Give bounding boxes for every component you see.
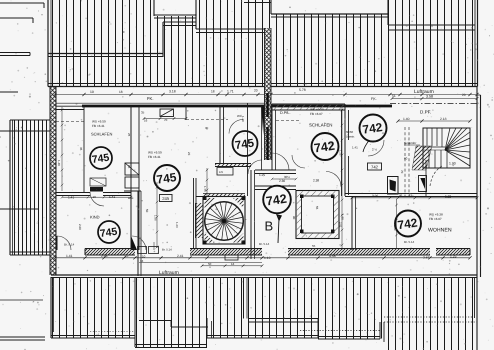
svg-text:5.23: 5.23 [445,194,451,198]
mid dim vertical [203,168,208,196]
step box below stair strip [225,255,238,260]
balcony door lower left [57,236,75,250]
bath door arc [326,172,341,187]
svg-text:B: B [265,219,274,234]
right exterior wall [477,86,481,277]
svg-text:1.56: 1.56 [154,215,158,221]
svg-text:745: 745 [99,226,118,240]
svg-text:WOHNEN: WOHNEN [428,227,452,233]
kind room [78,214,100,230]
circle 745 no3 [154,165,180,191]
bath shaft box [292,191,345,249]
svg-text:D.PF.: D.PF. [420,110,431,115]
upper door arc near bath [292,155,305,168]
circle 742 no1 [312,133,339,160]
svg-text:3.18: 3.18 [169,90,176,94]
svg-text:FB +8.07: FB +8.07 [310,112,323,116]
wall between schlafen and kind [56,187,132,206]
svg-text:60: 60 [404,156,408,160]
svg-text:Luftraum: Luftraum [414,89,434,95]
small dims corridor [145,209,179,252]
svg-text:18: 18 [211,90,215,94]
svg-text:745: 745 [156,170,178,187]
svg-text:2.62: 2.62 [393,225,397,231]
stair hatch wedge [412,146,432,170]
svg-text:Dunstr.: Dunstr. [346,135,355,139]
svg-text:2.36: 2.36 [101,254,108,258]
svg-text:1.75: 1.75 [203,186,207,192]
schlafen 742 room [272,104,345,196]
svg-text:55: 55 [312,244,316,248]
dim line y197 [351,194,479,200]
svg-text:50: 50 [208,262,212,266]
stair arrow dashed [430,166,442,186]
svg-text:18: 18 [119,90,123,94]
stair top wall hatch [203,194,245,197]
spiral stair corner hatch [205,198,244,243]
svg-text:2.51: 2.51 [339,222,343,228]
svg-text:D.PfL.: D.PfL. [280,111,291,115]
svg-text:2.18: 2.18 [440,117,447,121]
main top exterior wall [56,103,392,109]
wall stubs to bottom band [138,250,255,276]
svg-text:1.41: 1.41 [68,196,74,200]
svg-text:KIND: KIND [90,214,100,219]
svg-text:1.98: 1.98 [341,214,345,220]
svg-text:19: 19 [90,90,94,94]
svg-text:SCHLAFEN: SCHLAFEN [309,123,332,128]
wohnen room labels [404,213,452,244]
small closet schlafen [90,178,106,186]
south wall of hall / wohnen [345,194,477,251]
svg-text:1.48: 1.48 [57,160,61,166]
closet boxes [124,163,141,251]
wc partition walls [186,106,243,164]
left exterior wall crosshatch [50,87,56,275]
svg-text:742: 742 [313,139,336,156]
svg-text:1.71: 1.71 [227,90,234,94]
svg-text:WS +9.59: WS +9.59 [148,151,162,155]
svg-text:FB +8.07: FB +8.07 [429,217,442,221]
luftraum dash-dot edge [390,103,478,105]
svg-text:1.25: 1.25 [339,150,343,156]
svg-text:2.41: 2.41 [177,254,184,258]
svg-text:Br. 5.14: Br. 5.14 [162,248,172,252]
svg-text:FB +8.41: FB +8.41 [148,155,161,159]
svg-text:FB +8.41: FB +8.41 [92,124,105,128]
svg-text:745: 745 [91,152,110,166]
straight stair [423,128,470,168]
svg-text:742: 742 [362,120,384,137]
wc door arc [229,120,243,134]
spiral stair circle [205,202,244,241]
svg-text:4.58: 4.58 [329,254,336,258]
apartment number plate 742 [368,163,382,170]
left margin wall lines [0,3,45,340]
svg-text:1.23: 1.23 [175,222,179,228]
entry door wedge [132,236,147,250]
corridor line above stair [196,196,203,198]
bottom roof hatched band [51,277,477,350]
svg-text:1.90: 1.90 [449,162,456,166]
bottom dimension line 2 [139,259,263,267]
svg-text:20: 20 [254,89,258,93]
dpfl door leaf [261,107,265,135]
circle 745 no4 [233,131,258,156]
svg-text:245: 245 [162,196,170,201]
svg-text:2.60: 2.60 [78,224,82,230]
bottom band outline [51,275,477,350]
west roof hatched block [0,120,50,255]
dashed rail lines [404,127,406,196]
top dimension line [53,88,478,101]
svg-text:2 ½: 2 ½ [372,148,378,152]
wohnen dim vertical [393,199,398,248]
height plate 245 [160,195,173,202]
south wall hatched strip [85,247,470,256]
room 742 door arc [255,153,296,174]
svg-text:WS +9.10: WS +9.10 [310,108,324,112]
circle 742 no3 with tail [263,186,291,243]
spiral stair enclosure [203,197,245,245]
dpf dimension line [396,117,471,123]
top roof hatched band [48,0,477,86]
svg-text:1.13: 1.13 [264,256,271,260]
svg-text:LN: LN [219,170,223,174]
gelaender text [404,141,420,145]
svg-text:51: 51 [392,94,396,98]
corridor wall with hatch [215,164,251,176]
svg-text:60/60: 60/60 [346,130,353,134]
svg-text:B.03: B.03 [128,197,134,200]
svg-text:5.78: 5.78 [299,88,306,92]
svg-text:25: 25 [127,133,131,137]
circle 745 no2 [98,221,120,243]
svg-text:WS +9.59: WS +9.59 [92,120,106,124]
svg-text:35: 35 [141,110,145,114]
svg-text:1.41: 1.41 [352,146,358,150]
svg-text:FK.: FK. [147,96,154,101]
corridor south wall [251,170,319,250]
svg-text:55: 55 [315,206,319,210]
svg-text:23: 23 [187,152,191,156]
svg-text:3.58: 3.58 [426,95,433,99]
circle 745 no1 [90,147,112,169]
entry door arc [368,140,384,156]
schlafen labels [57,120,131,169]
svg-text:3.96: 3.96 [372,194,378,198]
circle 742 no4 [395,211,421,237]
svg-text:1.40: 1.40 [403,117,410,121]
svg-text:Br. 5.14: Br. 5.14 [259,242,270,246]
corridor door arc [248,160,290,179]
svg-text:10: 10 [125,254,129,258]
svg-text:35: 35 [79,147,83,151]
svg-text:20: 20 [462,93,466,97]
svg-text:Br. 5.14: Br. 5.14 [404,240,415,244]
window symbol in top wall [141,109,187,122]
svg-text:1.40: 1.40 [241,116,245,122]
svg-text:1.25: 1.25 [450,255,457,259]
svg-text:18: 18 [231,262,235,266]
circle 742 no2 [352,115,387,153]
stair winder rays [423,128,470,168]
svg-text:Geländer: Geländer [404,141,416,145]
east dim vertical [339,106,344,250]
chimney box [388,177,399,195]
schlafen 745 room walls [56,106,139,250]
flue box at stair [419,176,427,192]
entry walls [345,104,355,195]
svg-text:70: 70 [400,170,404,174]
svg-text:Br. 5.14: Br. 5.14 [64,242,75,246]
svg-text:2.30: 2.30 [279,179,285,183]
center corridor vertical wall [247,103,249,196]
svg-text:50: 50 [145,209,149,213]
svg-text:SCHLAFEN: SCHLAFEN [91,132,112,137]
svg-text:10: 10 [142,254,146,258]
center crosshatched wall [265,28,272,160]
svg-text:16: 16 [144,118,148,122]
svg-text:742: 742 [265,192,288,209]
svg-text:2.67: 2.67 [423,255,430,259]
top band outline [48,0,478,87]
svg-text:WS +9.38: WS +9.38 [429,213,443,217]
spiral stair wall hatch left [194,178,204,248]
svg-text:1.41: 1.41 [66,254,73,258]
svg-text:742: 742 [397,216,419,233]
bottom dimension line 1 [53,254,471,260]
corridor dim line [154,182,159,248]
svg-text:2.38: 2.38 [313,178,319,182]
svg-text:90: 90 [292,216,296,220]
svg-text:742: 742 [371,165,379,170]
